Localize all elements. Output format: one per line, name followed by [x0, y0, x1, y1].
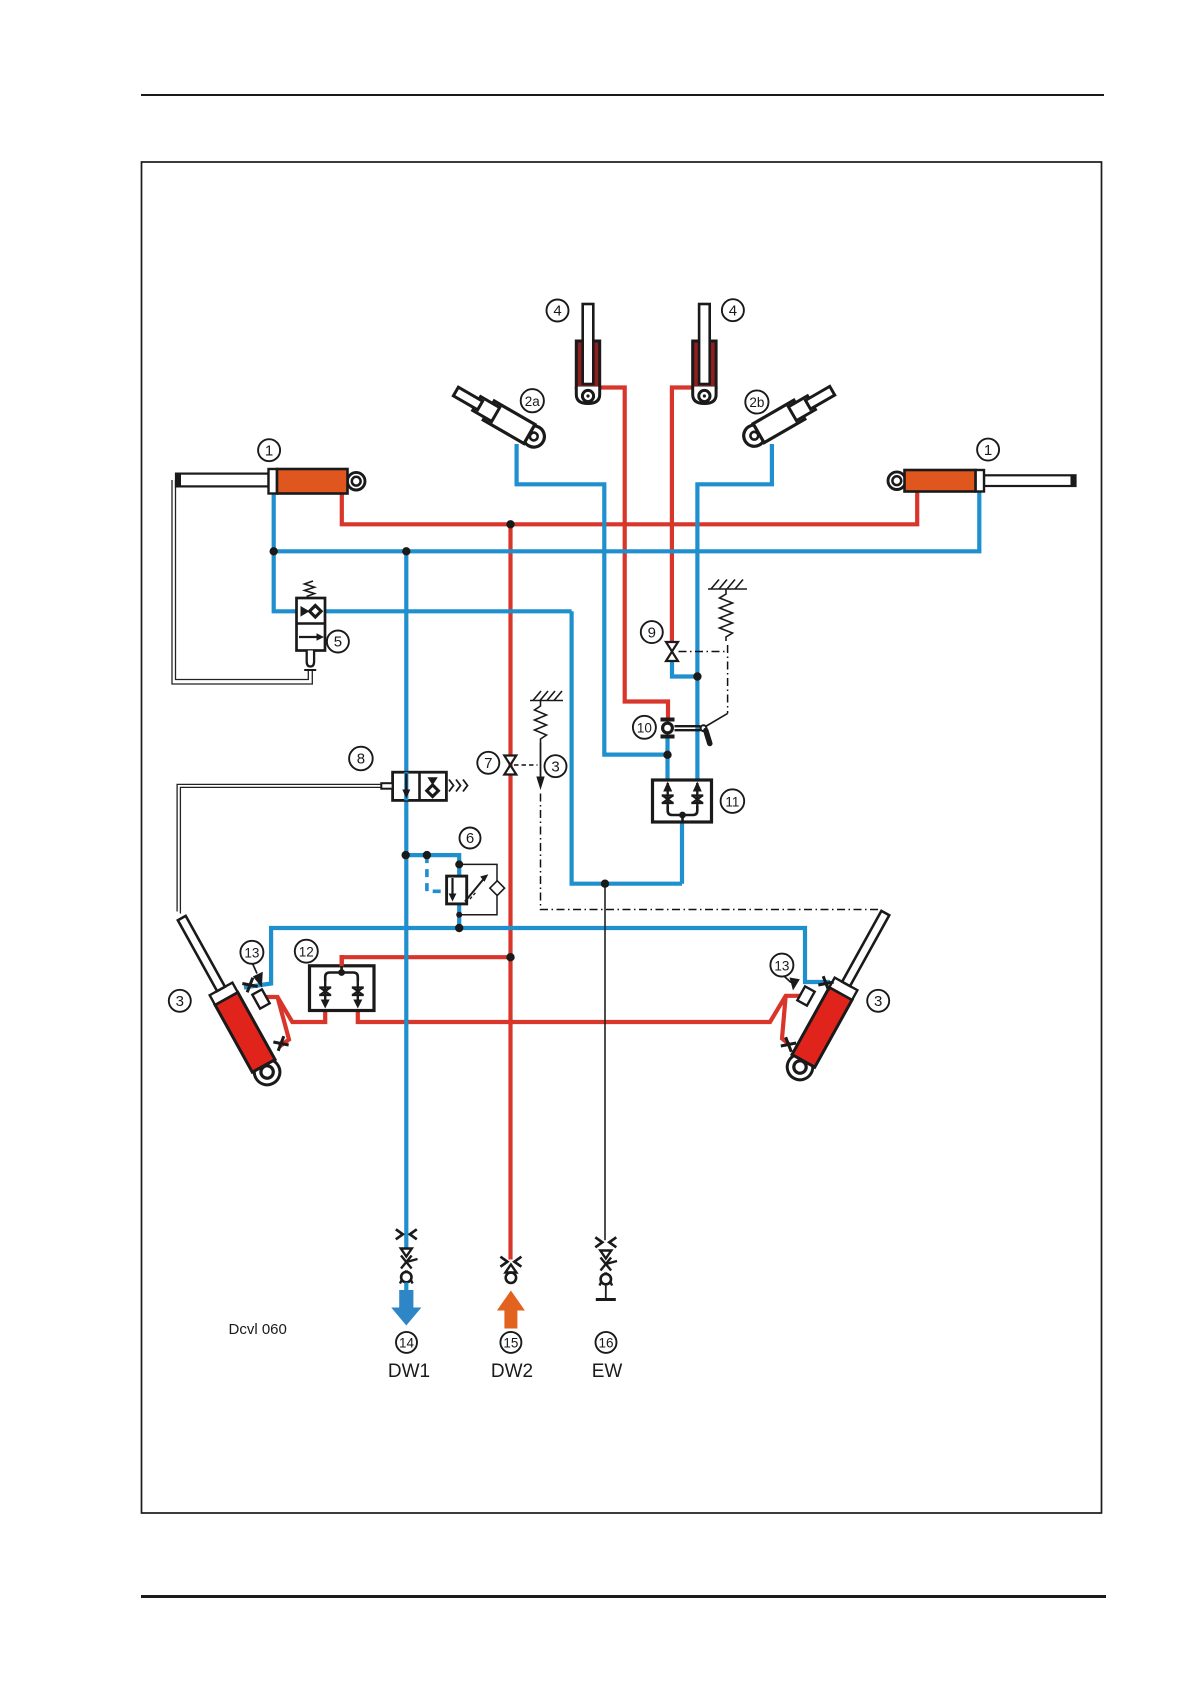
svg-text:13: 13	[244, 946, 259, 961]
svg-text:6: 6	[466, 830, 474, 847]
svg-text:7: 7	[484, 755, 492, 772]
svg-text:3: 3	[874, 993, 882, 1010]
svg-text:3: 3	[176, 993, 184, 1010]
svg-text:Dcvl 060: Dcvl 060	[229, 1321, 287, 1338]
svg-text:12: 12	[299, 944, 314, 959]
svg-text:2a: 2a	[525, 394, 541, 409]
svg-text:3: 3	[551, 758, 559, 775]
svg-text:9: 9	[648, 624, 656, 641]
svg-text:11: 11	[725, 794, 739, 809]
svg-text:15: 15	[503, 1336, 518, 1351]
svg-text:1: 1	[265, 442, 273, 459]
svg-text:DW1: DW1	[388, 1361, 430, 1382]
svg-text:5: 5	[334, 634, 342, 651]
svg-text:4: 4	[729, 302, 737, 319]
svg-text:8: 8	[357, 751, 365, 768]
svg-text:10: 10	[637, 721, 652, 736]
svg-text:2b: 2b	[749, 395, 764, 410]
svg-text:16: 16	[598, 1336, 613, 1351]
svg-text:14: 14	[399, 1336, 415, 1351]
svg-text:13: 13	[774, 958, 789, 973]
svg-text:1: 1	[984, 442, 992, 459]
svg-text:4: 4	[553, 303, 561, 320]
svg-text:DW2: DW2	[491, 1361, 533, 1382]
svg-text:EW: EW	[592, 1361, 623, 1382]
